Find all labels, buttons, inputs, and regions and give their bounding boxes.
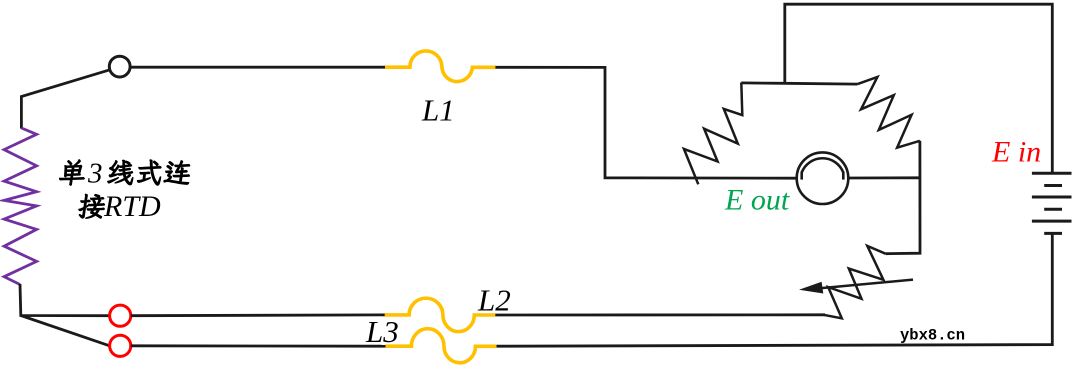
svg-text:ybx8.cn: ybx8.cn	[900, 327, 965, 345]
wire	[886, 141, 921, 254]
resistor R2	[858, 77, 920, 148]
resistor R1	[684, 83, 742, 185]
battery B1	[1032, 173, 1072, 233]
svg-text:L3: L3	[365, 314, 399, 349]
svg-text:L2: L2	[477, 282, 511, 317]
wire	[495, 67, 796, 178]
wire	[20, 284, 110, 316]
svg-text:E out: E out	[724, 184, 790, 217]
wire	[131, 344, 386, 347]
label 单3线式连 接RTD	[58, 158, 191, 224]
wire	[21, 70, 109, 129]
wire	[21, 316, 110, 346]
terminal T3	[110, 335, 131, 356]
wire	[131, 313, 385, 317]
terminal T2	[110, 305, 131, 326]
svg-text:3: 3	[87, 158, 103, 190]
lead loop L2	[385, 298, 496, 332]
svg-text:L1: L1	[421, 93, 455, 128]
lead loop L1	[385, 51, 495, 82]
rheostat wiper arrow	[820, 280, 913, 289]
lead loop L3	[386, 329, 497, 363]
terminal T1	[109, 56, 130, 77]
wire	[496, 233, 1052, 346]
resistor RTD	[4, 128, 37, 285]
galvanometer M	[797, 152, 849, 204]
svg-text:E in: E in	[991, 136, 1041, 169]
rheostat R3	[824, 246, 886, 318]
wire	[130, 66, 385, 69]
wire	[848, 176, 920, 179]
wire	[495, 313, 825, 316]
wire bridge top	[741, 83, 857, 84]
wire	[785, 4, 1053, 173]
svg-text:RTD: RTD	[103, 190, 161, 223]
